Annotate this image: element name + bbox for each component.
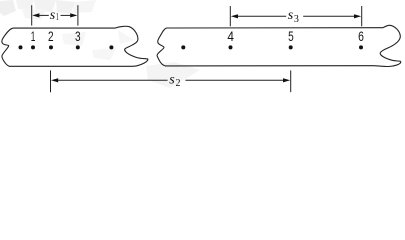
svg-text:6: 6 bbox=[358, 28, 364, 44]
tick dot before point 1 bbox=[19, 45, 23, 49]
dimension s1 left arrowhead bbox=[32, 13, 39, 17]
dimension s3 right arrowhead bbox=[354, 14, 361, 18]
dimension s2 extension ticks (at points 2 and 5) bbox=[51, 70, 291, 92]
svg-text:1: 1 bbox=[31, 28, 36, 44]
dimension s3 line segments bbox=[237, 15, 355, 17]
tick dot 1 bbox=[31, 45, 35, 49]
svg-text:1: 1 bbox=[56, 12, 59, 23]
svg-text:s: s bbox=[169, 73, 175, 88]
svg-text:5: 5 bbox=[288, 28, 294, 44]
dimension s1 extension ticks (at points 1 and 3) bbox=[32, 5, 78, 25]
svg-text:s: s bbox=[50, 8, 56, 23]
tick dot 6 bbox=[359, 45, 363, 49]
svg-text:2: 2 bbox=[176, 78, 181, 89]
dimension s3 left arrowhead bbox=[231, 14, 238, 18]
dimension s1 right arrowhead bbox=[70, 13, 77, 17]
label s1 bbox=[50, 8, 59, 23]
svg-text:3: 3 bbox=[294, 14, 299, 25]
tick dot after point 3 bbox=[109, 45, 113, 49]
label s2 bbox=[169, 73, 180, 89]
svg-text:3: 3 bbox=[75, 28, 81, 44]
left tape strip (torn ticker-tape segment with dots 1-3) bbox=[2, 26, 148, 66]
tick dot 3 bbox=[76, 45, 80, 49]
dimension s2 line segments bbox=[57, 79, 284, 81]
tick dot 5 bbox=[289, 45, 293, 49]
point number labels 1-6 bbox=[31, 28, 364, 44]
dimension s3 extension ticks (at points 4 and 6) bbox=[230, 6, 361, 26]
label s3 bbox=[288, 8, 299, 25]
dimension s2 right arrowhead bbox=[283, 78, 290, 82]
dimension s1 line segments bbox=[39, 14, 71, 16]
dimension s2 left arrowhead bbox=[51, 78, 58, 82]
svg-text:2: 2 bbox=[48, 28, 54, 44]
tick dot 2 bbox=[49, 45, 53, 49]
svg-text:s: s bbox=[288, 8, 294, 23]
right tape strip (torn ticker-tape segment with dots 4-6) bbox=[157, 25, 401, 66]
tick dot before point 4 bbox=[181, 45, 185, 49]
tick dot 4 bbox=[229, 45, 233, 49]
svg-text:4: 4 bbox=[227, 28, 234, 44]
